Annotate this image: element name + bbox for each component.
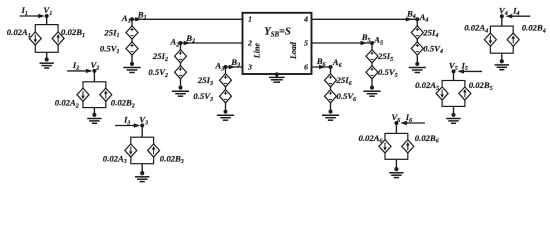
svg-text:0.02B2: 0.02B2 [111, 98, 135, 110]
svg-text:3: 3 [247, 62, 252, 71]
svg-text:4: 4 [303, 15, 308, 24]
svg-text:6: 6 [304, 62, 308, 71]
svg-text:5: 5 [304, 38, 308, 47]
svg-text:0.02A2: 0.02A2 [55, 98, 79, 110]
svg-text:0.02B5: 0.02B5 [469, 80, 493, 92]
svg-text:Load: Load [289, 41, 298, 60]
svg-text:0.02A4: 0.02A4 [464, 23, 488, 35]
svg-text:0.02B4: 0.02B4 [522, 23, 546, 35]
svg-text:0.02B6: 0.02B6 [415, 133, 439, 145]
svg-text:0.02A3: 0.02A3 [103, 153, 127, 165]
svg-text:1: 1 [248, 15, 252, 24]
svg-text:0.02A5: 0.02A5 [415, 80, 439, 92]
svg-text:0.02B1: 0.02B1 [61, 27, 85, 39]
svg-text:Line: Line [252, 43, 261, 60]
svg-text:0.02A1: 0.02A1 [7, 27, 31, 39]
svg-text:0.02B3: 0.02B3 [160, 153, 184, 165]
svg-text:0.02A6: 0.02A6 [359, 133, 383, 145]
